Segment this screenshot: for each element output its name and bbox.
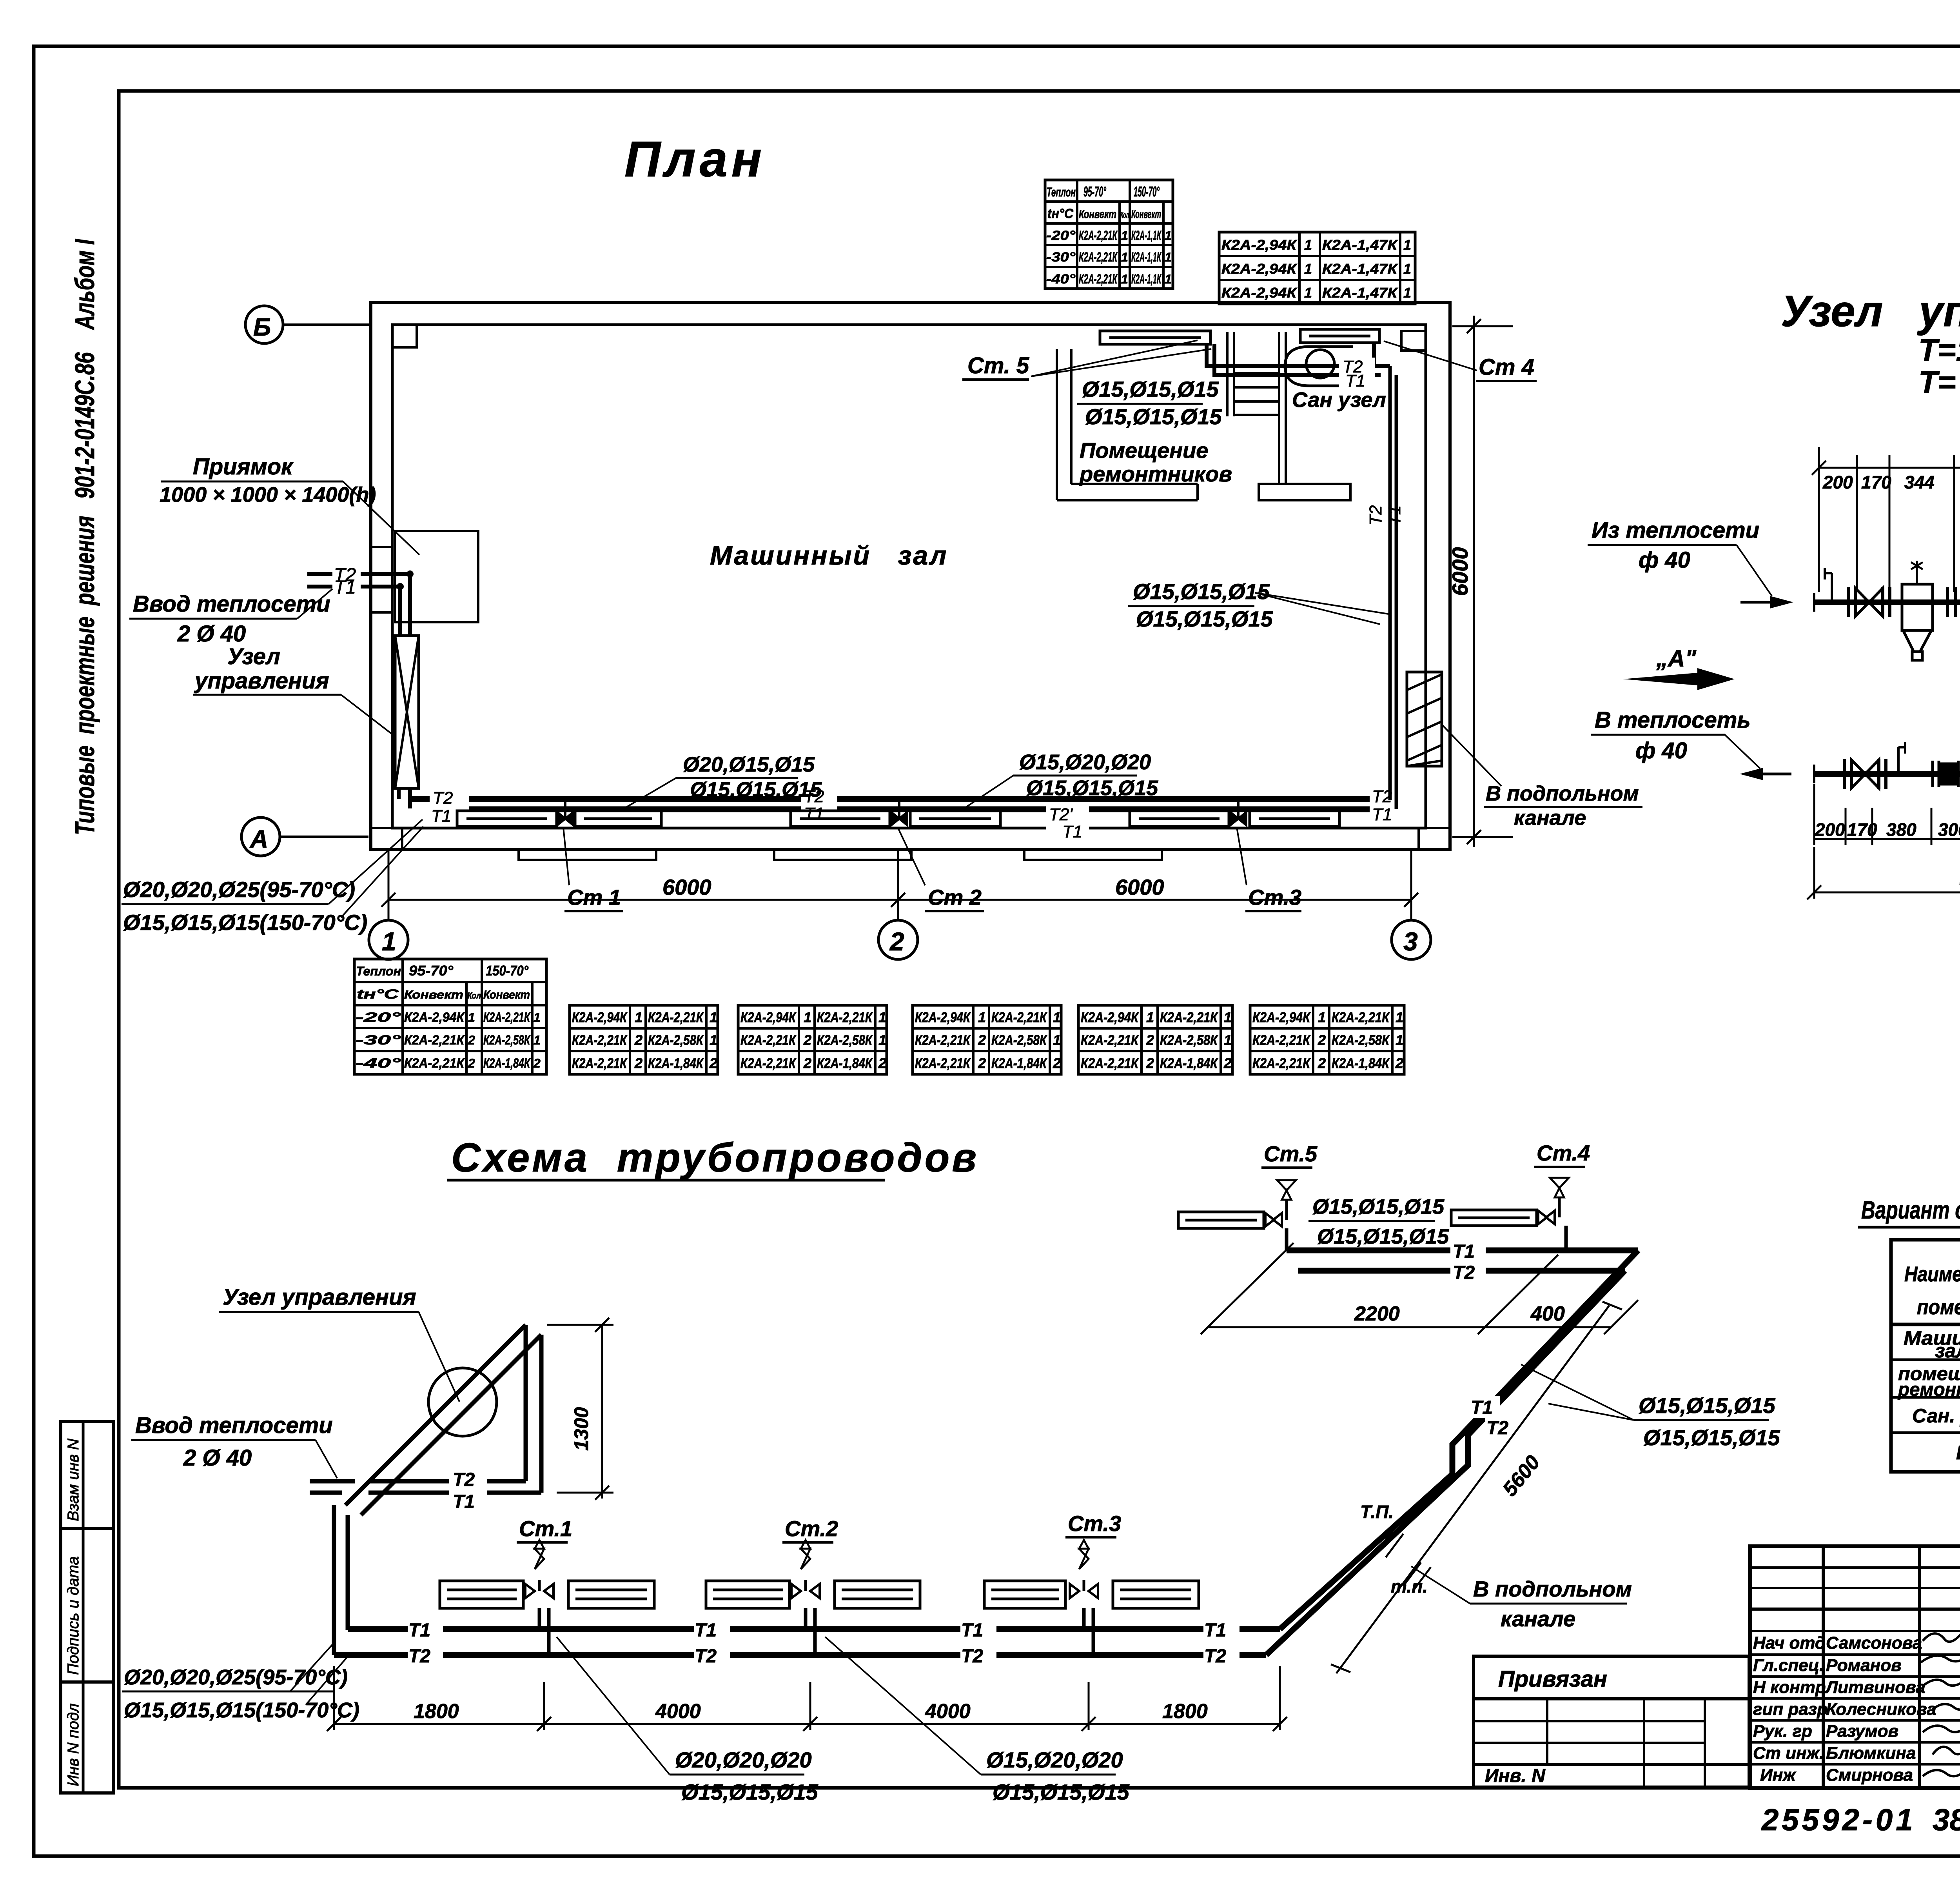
svg-text:2: 2 bbox=[1053, 1055, 1061, 1071]
pilaster bottom-left bbox=[371, 828, 402, 850]
bottom dimension line bbox=[381, 893, 1418, 907]
svg-text:Т1: Т1 bbox=[1372, 805, 1392, 824]
узел управления circle bbox=[428, 1368, 497, 1436]
svg-text:Ст.3: Ст.3 bbox=[1248, 885, 1301, 910]
top convector table B bbox=[1219, 232, 1415, 304]
svg-text:К2А-1,84К: К2А-1,84К bbox=[648, 1055, 704, 1071]
svg-text:Т2: Т2 bbox=[1486, 1418, 1508, 1439]
svg-text:К2А-2,21К: К2А-2,21К bbox=[1252, 1032, 1311, 1048]
leader приямок bbox=[343, 481, 419, 555]
svg-text:ремонтников: ремонтников bbox=[1897, 1379, 1960, 1400]
svg-text:К2А-1,1К: К2А-1,1К bbox=[1131, 228, 1161, 243]
svg-text:1: 1 bbox=[1165, 229, 1172, 243]
svg-text:К2А-2,21К: К2А-2,21К bbox=[915, 1032, 971, 1048]
svg-text:Т2': Т2' bbox=[1049, 805, 1073, 824]
svg-text:Инв. N: Инв. N bbox=[1485, 1766, 1546, 1786]
svg-text:-30°: -30° bbox=[1046, 250, 1075, 265]
svg-text:К2А-1,47К: К2А-1,47К bbox=[1322, 261, 1398, 277]
svg-text:К2А-2,21К: К2А-2,21К bbox=[740, 1055, 797, 1071]
svg-text:Узел: Узел bbox=[1781, 287, 1883, 336]
svg-text:1: 1 bbox=[1396, 1009, 1403, 1025]
svg-text:6000: 6000 bbox=[662, 875, 711, 899]
svg-text:2: 2 bbox=[533, 1056, 541, 1070]
svg-text:В подпольном: В подпольном bbox=[1486, 782, 1639, 805]
svg-text:1: 1 bbox=[382, 927, 396, 956]
svg-text:управления: управления bbox=[194, 668, 329, 694]
svg-text:К2А-2,21К: К2А-2,21К bbox=[817, 1009, 873, 1025]
svg-text:344: 344 bbox=[1904, 472, 1935, 492]
svg-text:Т1: Т1 bbox=[1062, 822, 1082, 841]
svg-text:К2А-2,21К: К2А-2,21К bbox=[991, 1009, 1047, 1025]
svg-text:Машинный зал: Машинный зал bbox=[710, 541, 948, 570]
dim 1300 bbox=[547, 1318, 613, 1500]
left margin stamp box bbox=[61, 1422, 114, 1793]
приямок pit box bbox=[395, 531, 478, 622]
svg-text:К2А-1,84К: К2А-1,84К bbox=[817, 1055, 873, 1071]
svg-text:К2А-2,21К: К2А-2,21К bbox=[740, 1032, 797, 1048]
axis circle 2 bbox=[878, 920, 918, 959]
svg-text:Т.П.: Т.П. bbox=[1360, 1502, 1394, 1522]
svg-text:канале: канале bbox=[1501, 1606, 1575, 1631]
svg-text:К2А-2,94К: К2А-2,94К bbox=[404, 1010, 465, 1025]
svg-text:Инж: Инж bbox=[1760, 1766, 1797, 1785]
svg-text:К2А-2,21К: К2А-2,21К bbox=[1081, 1032, 1139, 1048]
svg-text:К2А-2,94К: К2А-2,94К bbox=[1081, 1009, 1139, 1025]
svg-text:Н контр: Н контр bbox=[1753, 1678, 1826, 1697]
svg-text:ф 40: ф 40 bbox=[1639, 547, 1690, 573]
entry pipe stubs T2/T1 bbox=[307, 574, 410, 808]
main lines T1 / T2 with label gaps bbox=[334, 1629, 1280, 1655]
svg-text:2: 2 bbox=[468, 1056, 475, 1070]
main bottom pipes T2 / T1 bbox=[410, 799, 1391, 809]
svg-text:2: 2 bbox=[1318, 1055, 1326, 1071]
svg-text:1: 1 bbox=[710, 1032, 717, 1048]
svg-text:25592-01: 25592-01 bbox=[1761, 1802, 1916, 1837]
svg-text:-20°: -20° bbox=[356, 1010, 401, 1025]
svg-text:Т2: Т2 bbox=[1366, 505, 1385, 525]
svg-text:В подпольном: В подпольном bbox=[1473, 1577, 1632, 1601]
wall opening ticks for heat входа bbox=[371, 546, 392, 548]
svg-text:К2А-1,1К: К2А-1,1К bbox=[1131, 272, 1161, 287]
svg-text:Инв N подл: Инв N подл bbox=[65, 1703, 82, 1786]
leader Ст4 bbox=[1384, 341, 1477, 371]
convector table row 2 bbox=[570, 1005, 718, 1074]
svg-text:1: 1 bbox=[1165, 250, 1172, 264]
radiators group 1 bbox=[457, 811, 661, 826]
svg-text:Романов: Романов bbox=[1826, 1656, 1902, 1675]
svg-text:38: 38 bbox=[1933, 1802, 1960, 1837]
svg-text:170: 170 bbox=[1861, 472, 1891, 492]
svg-text:1: 1 bbox=[1121, 272, 1128, 286]
dim 5600 diagonal bbox=[1336, 1306, 1609, 1673]
svg-text:3: 3 bbox=[1403, 927, 1418, 956]
svg-text:Ø15,Ø15,Ø15: Ø15,Ø15,Ø15 bbox=[1133, 579, 1270, 604]
svg-text:Самсонова: Самсонова bbox=[1826, 1633, 1922, 1653]
san uzel fixture circle bbox=[1306, 350, 1334, 378]
svg-text:Ст 2: Ст 2 bbox=[928, 885, 982, 910]
svg-text:Ст.1: Ст.1 bbox=[519, 1516, 572, 1541]
svg-text:2: 2 bbox=[709, 1055, 717, 1071]
svg-text:Т1: Т1 bbox=[1385, 505, 1404, 525]
svg-text:1: 1 bbox=[1304, 285, 1312, 301]
svg-text:Наименование: Наименование bbox=[1904, 1262, 1960, 1286]
svg-text:К2А-2,94К: К2А-2,94К bbox=[1252, 1009, 1311, 1025]
svg-text:Т2: Т2 bbox=[453, 1470, 475, 1490]
svg-text:Т2: Т2 bbox=[961, 1646, 983, 1667]
svg-text:2: 2 bbox=[978, 1032, 986, 1048]
electric heating table bbox=[1891, 1240, 1960, 1472]
entry stubs bbox=[310, 1481, 355, 1493]
break marks Т.П. bbox=[1376, 1529, 1431, 1591]
svg-text:tн°С: tн°С bbox=[357, 987, 399, 1002]
svg-text:6000: 6000 bbox=[1448, 547, 1472, 596]
leader Ст1 bbox=[563, 827, 569, 885]
svg-text:-20°: -20° bbox=[1046, 228, 1075, 243]
leader to circle bbox=[419, 1312, 459, 1402]
lower pipe bbox=[1814, 771, 1960, 777]
svg-text:зал: зал bbox=[1935, 1340, 1960, 1362]
svg-text:400: 400 bbox=[1530, 1302, 1565, 1325]
svg-text:1: 1 bbox=[1146, 1009, 1154, 1025]
svg-text:Ø15,Ø15,Ø15: Ø15,Ø15,Ø15 bbox=[1085, 404, 1222, 429]
axis circle Б bbox=[245, 306, 283, 343]
svg-text:1: 1 bbox=[1403, 261, 1411, 277]
svg-text:Т1: Т1 bbox=[1471, 1397, 1493, 1418]
svg-text:Ø20,Ø20,Ø25(95-70°С): Ø20,Ø20,Ø25(95-70°С) bbox=[124, 1666, 348, 1689]
svg-text:Т2: Т2 bbox=[433, 788, 453, 808]
svg-text:Конвект: Конвект bbox=[404, 988, 463, 1001]
dimension 1754 bbox=[1812, 447, 1960, 592]
top convector table A bbox=[1045, 180, 1173, 289]
svg-text:Из теплосети: Из теплосети bbox=[1592, 518, 1759, 543]
hatched узел box right bbox=[1407, 672, 1442, 766]
svg-text:Ø20,Ø20,Ø25(95-70°С): Ø20,Ø20,Ø25(95-70°С) bbox=[123, 877, 355, 902]
upper branch mains T1/T2 bbox=[1287, 1250, 1638, 1271]
svg-text:К2А-2,94К: К2А-2,94К bbox=[1221, 261, 1298, 277]
svg-text:1: 1 bbox=[1053, 1009, 1061, 1025]
right vertical dimension 6000 bbox=[1452, 316, 1513, 847]
svg-text:К2А-2,94К: К2А-2,94К bbox=[915, 1009, 971, 1025]
svg-text:Ст 4: Ст 4 bbox=[1479, 354, 1534, 380]
flow arrow in (upper) bbox=[1740, 601, 1788, 604]
svg-text:Ø15,Ø20,Ø20: Ø15,Ø20,Ø20 bbox=[986, 1747, 1123, 1772]
svg-text:Нач отд: Нач отд bbox=[1753, 1633, 1826, 1653]
svg-text:Ø15,Ø15,Ø15: Ø15,Ø15,Ø15 bbox=[690, 778, 822, 801]
leader to В подпольном канале bbox=[1443, 725, 1501, 786]
plan inner wall bbox=[392, 325, 1426, 828]
svg-text:К2А-2,21К: К2А-2,21К bbox=[1332, 1009, 1390, 1025]
svg-text:Ø15,Ø15,Ø15: Ø15,Ø15,Ø15 bbox=[1082, 377, 1219, 401]
svg-text:Ø15,Ø15,Ø15: Ø15,Ø15,Ø15 bbox=[1643, 1425, 1780, 1450]
svg-text:Т1: Т1 bbox=[961, 1620, 983, 1641]
svg-text:-40°: -40° bbox=[1046, 272, 1075, 287]
svg-text:Конвект: Конвект bbox=[1131, 208, 1161, 221]
привязан sub-table bbox=[1474, 1656, 1749, 1787]
bottom dimension line (scheme) bbox=[327, 1666, 1287, 1731]
svg-text:Конвект: Конвект bbox=[483, 988, 530, 1001]
label gaps on diagonal bbox=[1469, 1396, 1500, 1418]
svg-text:1: 1 bbox=[1053, 1032, 1061, 1048]
svg-text:К2А-2,21К: К2А-2,21К bbox=[1079, 228, 1118, 243]
svg-text:1: 1 bbox=[1403, 285, 1411, 301]
flange pair bbox=[1848, 587, 1855, 617]
svg-text:2: 2 bbox=[634, 1055, 642, 1071]
leaders bbox=[290, 1643, 348, 1705]
svg-text:Блюмкина: Блюмкина bbox=[1826, 1744, 1916, 1763]
radiator Ст4 top bbox=[1300, 329, 1379, 343]
svg-text:К2А-2,94К: К2А-2,94К bbox=[1221, 285, 1298, 301]
svg-text:К2А-2,58К: К2А-2,58К bbox=[817, 1032, 873, 1048]
window sill 2 bbox=[774, 850, 911, 860]
svg-text:Литвинова: Литвинова bbox=[1825, 1678, 1926, 1697]
svg-text:Т1: Т1 bbox=[695, 1620, 717, 1641]
svg-text:К2А-1,84К: К2А-1,84К bbox=[1160, 1055, 1218, 1071]
axis circle А bbox=[241, 817, 280, 856]
svg-text:канале: канале bbox=[1514, 806, 1586, 830]
window sill 1 bbox=[519, 850, 656, 860]
svg-text:2 Ø 40: 2 Ø 40 bbox=[177, 621, 246, 647]
globe valve lower bbox=[1933, 761, 1960, 787]
svg-text:Кол: Кол bbox=[1120, 210, 1129, 220]
svg-text:1: 1 bbox=[1403, 237, 1411, 253]
convector table axis1 bbox=[354, 959, 546, 1074]
svg-text:Т1: Т1 bbox=[453, 1491, 475, 1512]
svg-text:Помещение: Помещение bbox=[1080, 438, 1208, 463]
svg-text:Смирнова: Смирнова bbox=[1826, 1766, 1913, 1785]
svg-text:Т1: Т1 bbox=[334, 577, 356, 598]
svg-text:К2А-2,21К: К2А-2,21К bbox=[572, 1055, 628, 1071]
riser diagonal pipes bbox=[334, 1325, 541, 1655]
svg-text:1: 1 bbox=[534, 1010, 541, 1024]
svg-text:Т1: Т1 bbox=[804, 804, 824, 823]
svg-text:2: 2 bbox=[803, 1032, 811, 1048]
svg-text:Конвект: Конвект bbox=[1079, 208, 1116, 221]
node dots at elbows bbox=[407, 570, 414, 578]
svg-text:Ø15,Ø15,Ø15: Ø15,Ø15,Ø15 bbox=[1136, 607, 1273, 631]
radiators group 3 bbox=[1130, 811, 1339, 826]
svg-text:300: 300 bbox=[1938, 819, 1960, 840]
convector table row 4 bbox=[913, 1005, 1061, 1074]
svg-text:1: 1 bbox=[534, 1033, 541, 1047]
flange mid bbox=[1947, 587, 1955, 617]
svg-text:tн°С: tн°С bbox=[1047, 206, 1073, 221]
svg-text:Ст. 5: Ст. 5 bbox=[967, 353, 1029, 378]
svg-text:Типовые проектные решения: Типовые проектные решения 901-2-0149C.86… bbox=[69, 239, 100, 835]
section arrow А bbox=[1623, 645, 1735, 690]
pilaster top-right bbox=[1401, 331, 1426, 351]
svg-text:1: 1 bbox=[1224, 1032, 1232, 1048]
svg-text:Т2: Т2 bbox=[695, 1646, 717, 1667]
svg-text:К2А-1,1К: К2А-1,1К bbox=[1131, 250, 1161, 265]
svg-text:К2А-2,58К: К2А-2,58К bbox=[991, 1032, 1047, 1048]
svg-text:380: 380 bbox=[1886, 819, 1916, 840]
svg-text:помещения: помещения bbox=[1917, 1295, 1960, 1319]
riser valves between radiators g1 bbox=[557, 801, 573, 825]
svg-text:200: 200 bbox=[1822, 472, 1853, 492]
svg-text:К2А-1,47К: К2А-1,47К bbox=[1322, 237, 1398, 253]
window sill 3 bbox=[1024, 850, 1162, 860]
svg-text:Ø15,Ø15,Ø15: Ø15,Ø15,Ø15 bbox=[1639, 1393, 1776, 1418]
svg-text:1: 1 bbox=[468, 1010, 475, 1024]
san uzel partition I-wall bbox=[1259, 332, 1350, 500]
svg-text:2: 2 bbox=[1318, 1032, 1326, 1048]
svg-text:К2А-2,21К: К2А-2,21К bbox=[483, 1010, 531, 1025]
svg-text:Сан узел: Сан узел bbox=[1292, 388, 1386, 412]
riser valves between radiators g3 bbox=[1230, 801, 1246, 825]
svg-text:Итого: Итого bbox=[1956, 1442, 1960, 1464]
svg-text:Ø15,Ø15,Ø15: Ø15,Ø15,Ø15 bbox=[1317, 1225, 1449, 1248]
top pipes T2/T1 san uzel bbox=[1207, 342, 1390, 375]
gate valve lower-left bbox=[1851, 760, 1879, 788]
svg-text:Т1: Т1 bbox=[1453, 1241, 1475, 1262]
leaders to risers bbox=[1255, 593, 1388, 624]
svg-text:А: А bbox=[249, 825, 268, 853]
names column bbox=[1753, 1633, 1936, 1785]
svg-text:ф 40: ф 40 bbox=[1635, 738, 1687, 763]
dimension 2144 bbox=[1807, 847, 1960, 899]
svg-text:1800: 1800 bbox=[414, 1700, 459, 1723]
svg-text:К2А-2,21К: К2А-2,21К bbox=[1079, 250, 1118, 265]
pilaster top-left bbox=[392, 325, 417, 347]
svg-text:1800: 1800 bbox=[1162, 1700, 1208, 1723]
svg-text:95-70°: 95-70° bbox=[1083, 183, 1106, 200]
svg-text:Ø15,Ø15,Ø15(150-70°С): Ø15,Ø15,Ø15(150-70°С) bbox=[124, 1698, 359, 1722]
svg-text:1300: 1300 bbox=[570, 1407, 592, 1451]
svg-text:Теплон: Теплон bbox=[1047, 185, 1076, 199]
svg-text:2: 2 bbox=[803, 1055, 811, 1071]
svg-text:Т1: Т1 bbox=[431, 807, 451, 826]
svg-text:Подпись и дата: Подпись и дата bbox=[65, 1556, 82, 1675]
svg-text:План: План bbox=[624, 131, 766, 187]
svg-text:К2А-2,21К: К2А-2,21К bbox=[572, 1032, 628, 1048]
svg-text:К2А-2,21К: К2А-2,21К bbox=[404, 1033, 465, 1048]
помещение ремонтников left wall bbox=[1057, 349, 1198, 500]
pilaster bottom-right bbox=[1419, 828, 1450, 850]
svg-text:К2А-2,58К: К2А-2,58К bbox=[1332, 1032, 1390, 1048]
svg-text:Б: Б bbox=[253, 313, 271, 341]
svg-text:150-70°: 150-70° bbox=[486, 963, 529, 979]
svg-text:„А": „А" bbox=[1656, 645, 1697, 672]
plan outer wall bbox=[371, 302, 1450, 850]
signatures squiggles bbox=[1921, 1624, 1960, 1776]
svg-text:1: 1 bbox=[635, 1009, 642, 1025]
leaders from labels to pipes bbox=[328, 819, 423, 917]
svg-text:-40°: -40° bbox=[356, 1056, 401, 1071]
svg-text:Узел управления: Узел управления bbox=[223, 1284, 416, 1310]
radiators group 2 bbox=[791, 811, 1000, 826]
svg-text:1: 1 bbox=[1396, 1032, 1403, 1048]
svg-text:Приямок: Приямок bbox=[193, 454, 294, 480]
dim 2200/400 bbox=[1201, 1243, 1638, 1334]
svg-text:Сан. узел: Сан. узел bbox=[1912, 1405, 1960, 1427]
svg-text:К2А-2,94К: К2А-2,94К bbox=[572, 1009, 628, 1025]
mud filter upper bbox=[1902, 561, 1933, 660]
svg-text:К2А-1,84К: К2А-1,84К bbox=[483, 1056, 531, 1071]
svg-text:2: 2 bbox=[878, 1055, 886, 1071]
svg-text:Ст.4: Ст.4 bbox=[1537, 1141, 1590, 1165]
svg-text:Схема трубопроводов: Схема трубопроводов bbox=[451, 1135, 979, 1181]
svg-text:1: 1 bbox=[1121, 229, 1128, 243]
svg-text:Гл.спец.: Гл.спец. bbox=[1753, 1656, 1824, 1675]
upper pipe bbox=[1814, 599, 1960, 605]
svg-text:2: 2 bbox=[1146, 1055, 1154, 1071]
svg-text:1: 1 bbox=[978, 1009, 986, 1025]
axis circle 1 bbox=[369, 920, 408, 959]
leader Ст5 bbox=[1031, 340, 1198, 376]
svg-text:1: 1 bbox=[878, 1032, 886, 1048]
svg-text:1: 1 bbox=[1304, 237, 1312, 253]
radiator Ст5 top bbox=[1100, 331, 1210, 344]
svg-text:2: 2 bbox=[1146, 1032, 1154, 1048]
svg-text:Ø20,Ø15,Ø15: Ø20,Ø15,Ø15 bbox=[683, 753, 815, 776]
gate valve upper-left bbox=[1855, 588, 1883, 616]
riser valves between radiators g2 bbox=[891, 801, 907, 825]
svg-text:К2А-2,21К: К2А-2,21К bbox=[915, 1055, 971, 1071]
svg-text:Взам инв N: Взам инв N bbox=[65, 1439, 82, 1521]
svg-text:К2А-2,21К: К2А-2,21К bbox=[1160, 1009, 1218, 1025]
svg-text:1000 × 1000 × 1400(h): 1000 × 1000 × 1400(h) bbox=[160, 483, 376, 507]
axis circle 3 bbox=[1392, 920, 1431, 959]
flange pair lower-left bbox=[1844, 759, 1851, 789]
svg-text:К2А-2,21К: К2А-2,21К bbox=[1252, 1055, 1311, 1071]
vent tap lower bbox=[1898, 742, 1905, 774]
svg-text:Ст.2: Ст.2 bbox=[785, 1516, 838, 1541]
svg-text:2: 2 bbox=[1395, 1055, 1403, 1071]
svg-text:Т2: Т2 bbox=[1204, 1646, 1226, 1667]
svg-text:Т2: Т2 bbox=[408, 1646, 430, 1667]
svg-text:1: 1 bbox=[1318, 1009, 1326, 1025]
svg-text:Ст.5: Ст.5 bbox=[1264, 1141, 1318, 1166]
main stamp grid bbox=[1750, 1546, 1960, 1788]
svg-text:К2А-2,21К: К2А-2,21К bbox=[1081, 1055, 1139, 1071]
convector table row 6 bbox=[1250, 1005, 1404, 1074]
узел управления X-box in plan bbox=[395, 636, 419, 788]
svg-text:Ø20,Ø20,Ø20: Ø20,Ø20,Ø20 bbox=[675, 1747, 812, 1772]
svg-text:Вариант с электроотоплением: Вариант с электроотоплением bbox=[1861, 1196, 1960, 1224]
svg-text:4000: 4000 bbox=[925, 1700, 971, 1723]
svg-text:К2А-1,84К: К2А-1,84К bbox=[991, 1055, 1047, 1071]
diagonal run T1/T2 with jog bbox=[1266, 1250, 1638, 1655]
svg-text:К2А-2,94К: К2А-2,94К bbox=[740, 1009, 797, 1025]
svg-text:Кол: Кол bbox=[467, 991, 481, 1001]
svg-text:Колесникова: Колесникова bbox=[1826, 1700, 1936, 1719]
svg-text:управления: управления bbox=[1917, 287, 1960, 336]
svg-text:1: 1 bbox=[878, 1009, 886, 1025]
svg-text:-30°: -30° bbox=[356, 1033, 401, 1048]
svg-text:2: 2 bbox=[889, 927, 904, 956]
svg-text:Рук. гр: Рук. гр bbox=[1753, 1722, 1812, 1741]
svg-text:К2А-2,58К: К2А-2,58К bbox=[648, 1032, 704, 1048]
svg-text:Разумов: Разумов bbox=[1826, 1722, 1898, 1741]
svg-text:К2А-2,21К: К2А-2,21К bbox=[648, 1009, 704, 1025]
svg-text:Ø15,Ø15,Ø15: Ø15,Ø15,Ø15 bbox=[681, 1780, 818, 1804]
leader Ст3 bbox=[1237, 827, 1247, 885]
svg-text:2: 2 bbox=[978, 1055, 986, 1071]
svg-text:95-70°: 95-70° bbox=[409, 963, 454, 979]
svg-text:Т1: Т1 bbox=[1204, 1620, 1226, 1641]
svg-text:1: 1 bbox=[1165, 272, 1172, 286]
svg-text:ремонтников: ремонтников bbox=[1079, 461, 1232, 486]
san uzel fixture enclosure bbox=[1285, 347, 1353, 386]
svg-text:1: 1 bbox=[1121, 250, 1128, 264]
svg-text:Ø15,Ø20,Ø20: Ø15,Ø20,Ø20 bbox=[1019, 750, 1151, 774]
svg-text:4000: 4000 bbox=[655, 1700, 701, 1723]
svg-text:Ст инж.: Ст инж. bbox=[1753, 1744, 1824, 1763]
svg-text:В теплосеть: В теплосеть bbox=[1595, 707, 1751, 733]
svg-text:1: 1 bbox=[1304, 261, 1312, 277]
right risers T2/T1 vertical bbox=[1390, 366, 1396, 809]
svg-text:2: 2 bbox=[634, 1032, 642, 1048]
